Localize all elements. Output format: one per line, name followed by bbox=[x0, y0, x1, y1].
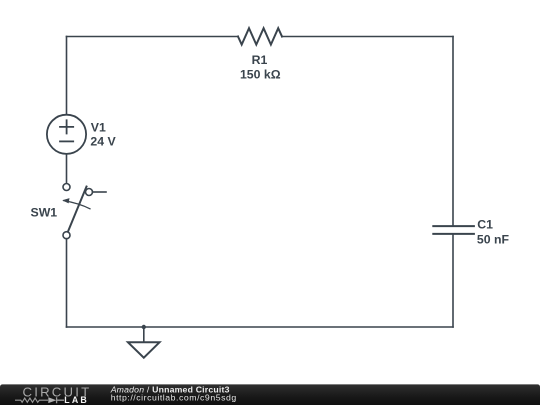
wire left bottom bbox=[66, 239, 68, 327]
wire top right segment bbox=[282, 36, 453, 38]
svg-text:V1: V1 bbox=[91, 120, 106, 134]
svg-text:50 nF: 50 nF bbox=[477, 232, 510, 246]
wire left middle bbox=[66, 154, 68, 183]
logo diode bbox=[48, 397, 56, 403]
resistor R1 bbox=[238, 28, 282, 44]
switch SW1 bbox=[62, 184, 106, 239]
svg-text:http://circuitlab.com/c9n5sdg: http://circuitlab.com/c9n5sdg bbox=[111, 393, 237, 403]
svg-text:150 kΩ: 150 kΩ bbox=[240, 68, 281, 82]
wire right upper bbox=[452, 37, 454, 227]
svg-text:R1: R1 bbox=[252, 53, 268, 67]
logo resistor zigzag bbox=[15, 398, 48, 402]
wire top left segment bbox=[67, 36, 239, 38]
footer bar bbox=[0, 384, 540, 405]
svg-text:C1: C1 bbox=[477, 218, 493, 232]
capacitor C1 bbox=[433, 226, 474, 234]
wire bottom bbox=[67, 326, 454, 328]
svg-text:LAB: LAB bbox=[64, 395, 89, 405]
wire ground stub bbox=[143, 327, 145, 342]
wire left top bbox=[66, 37, 68, 115]
wire right lower bbox=[452, 234, 454, 327]
svg-text:SW1: SW1 bbox=[31, 206, 58, 220]
svg-text:24 V: 24 V bbox=[90, 134, 116, 148]
junction dot bbox=[142, 325, 146, 329]
voltage source V1 bbox=[47, 115, 86, 154]
ground bbox=[128, 342, 160, 357]
